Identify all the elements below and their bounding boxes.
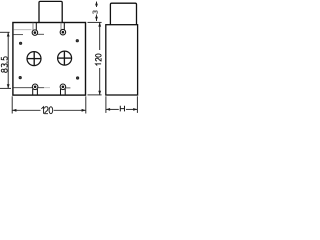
dim H text <box>120 106 124 112</box>
knockout circle left with cross <box>27 52 41 66</box>
dim 120 bottom arrow left <box>12 109 16 112</box>
screw boss top-right <box>60 23 66 35</box>
dim 83.5 arrow up <box>7 32 10 36</box>
dim top small arrow down <box>95 17 98 21</box>
small corner hole bottom-left <box>19 76 22 79</box>
dim H line right <box>126 108 137 110</box>
dim 120 right text <box>96 54 102 66</box>
inner ledge faint line upper-left <box>14 29 32 31</box>
small corner hole bottom-right <box>76 77 79 80</box>
inner ledge line top-left <box>13 34 23 36</box>
dim 83.5 arrow down <box>7 84 10 88</box>
dim 120 right arrow up <box>98 22 101 26</box>
small corner hole top-left <box>19 42 22 45</box>
dim H line left <box>106 108 119 110</box>
dim 120 right arrow down <box>98 91 101 95</box>
dim H extension right <box>136 96 138 113</box>
dim 120 bottom extension left <box>11 96 13 113</box>
dim top small arrow up <box>95 1 98 5</box>
dim 120 bottom extension right <box>85 96 87 113</box>
dim 120 bottom arrow right <box>82 109 86 112</box>
inner ledge line bottom-left fade <box>44 87 50 89</box>
dim 120 right extension top <box>88 21 102 23</box>
dim 120 bottom line right <box>54 109 86 111</box>
dim 120 right line lower <box>99 68 101 95</box>
knockout circle right with cross <box>58 51 72 65</box>
inner ledge line bottom-left <box>13 87 44 89</box>
screw boss top-left <box>32 23 38 36</box>
dim 83.5 text <box>1 57 7 73</box>
inner ledge line top-middle <box>37 33 45 35</box>
dim H extension left <box>105 96 107 113</box>
side view top lug <box>110 3 136 25</box>
dim 120 bottom line left <box>12 109 40 111</box>
dim H arrow left <box>106 108 110 111</box>
dim H arrow right <box>133 108 137 111</box>
dim 83.5 extension bottom <box>0 87 11 89</box>
dim 120 bottom text <box>41 107 52 114</box>
side view body <box>106 25 138 95</box>
dim 120 right extension bottom <box>88 94 102 96</box>
inner ledge line bottom-right <box>65 87 71 89</box>
front view top mounting lug <box>39 1 62 22</box>
dim 83.5 line <box>7 32 9 88</box>
dim 120 right line upper <box>99 22 101 50</box>
dim 83.5 extension top <box>0 31 10 33</box>
small corner hole top-right <box>76 39 79 42</box>
screw boss bottom-left <box>32 84 38 95</box>
dim top small line <box>96 2 98 7</box>
screw boss bottom-right <box>60 84 66 95</box>
front view box outline <box>13 23 86 96</box>
dim top small text <box>93 11 97 14</box>
